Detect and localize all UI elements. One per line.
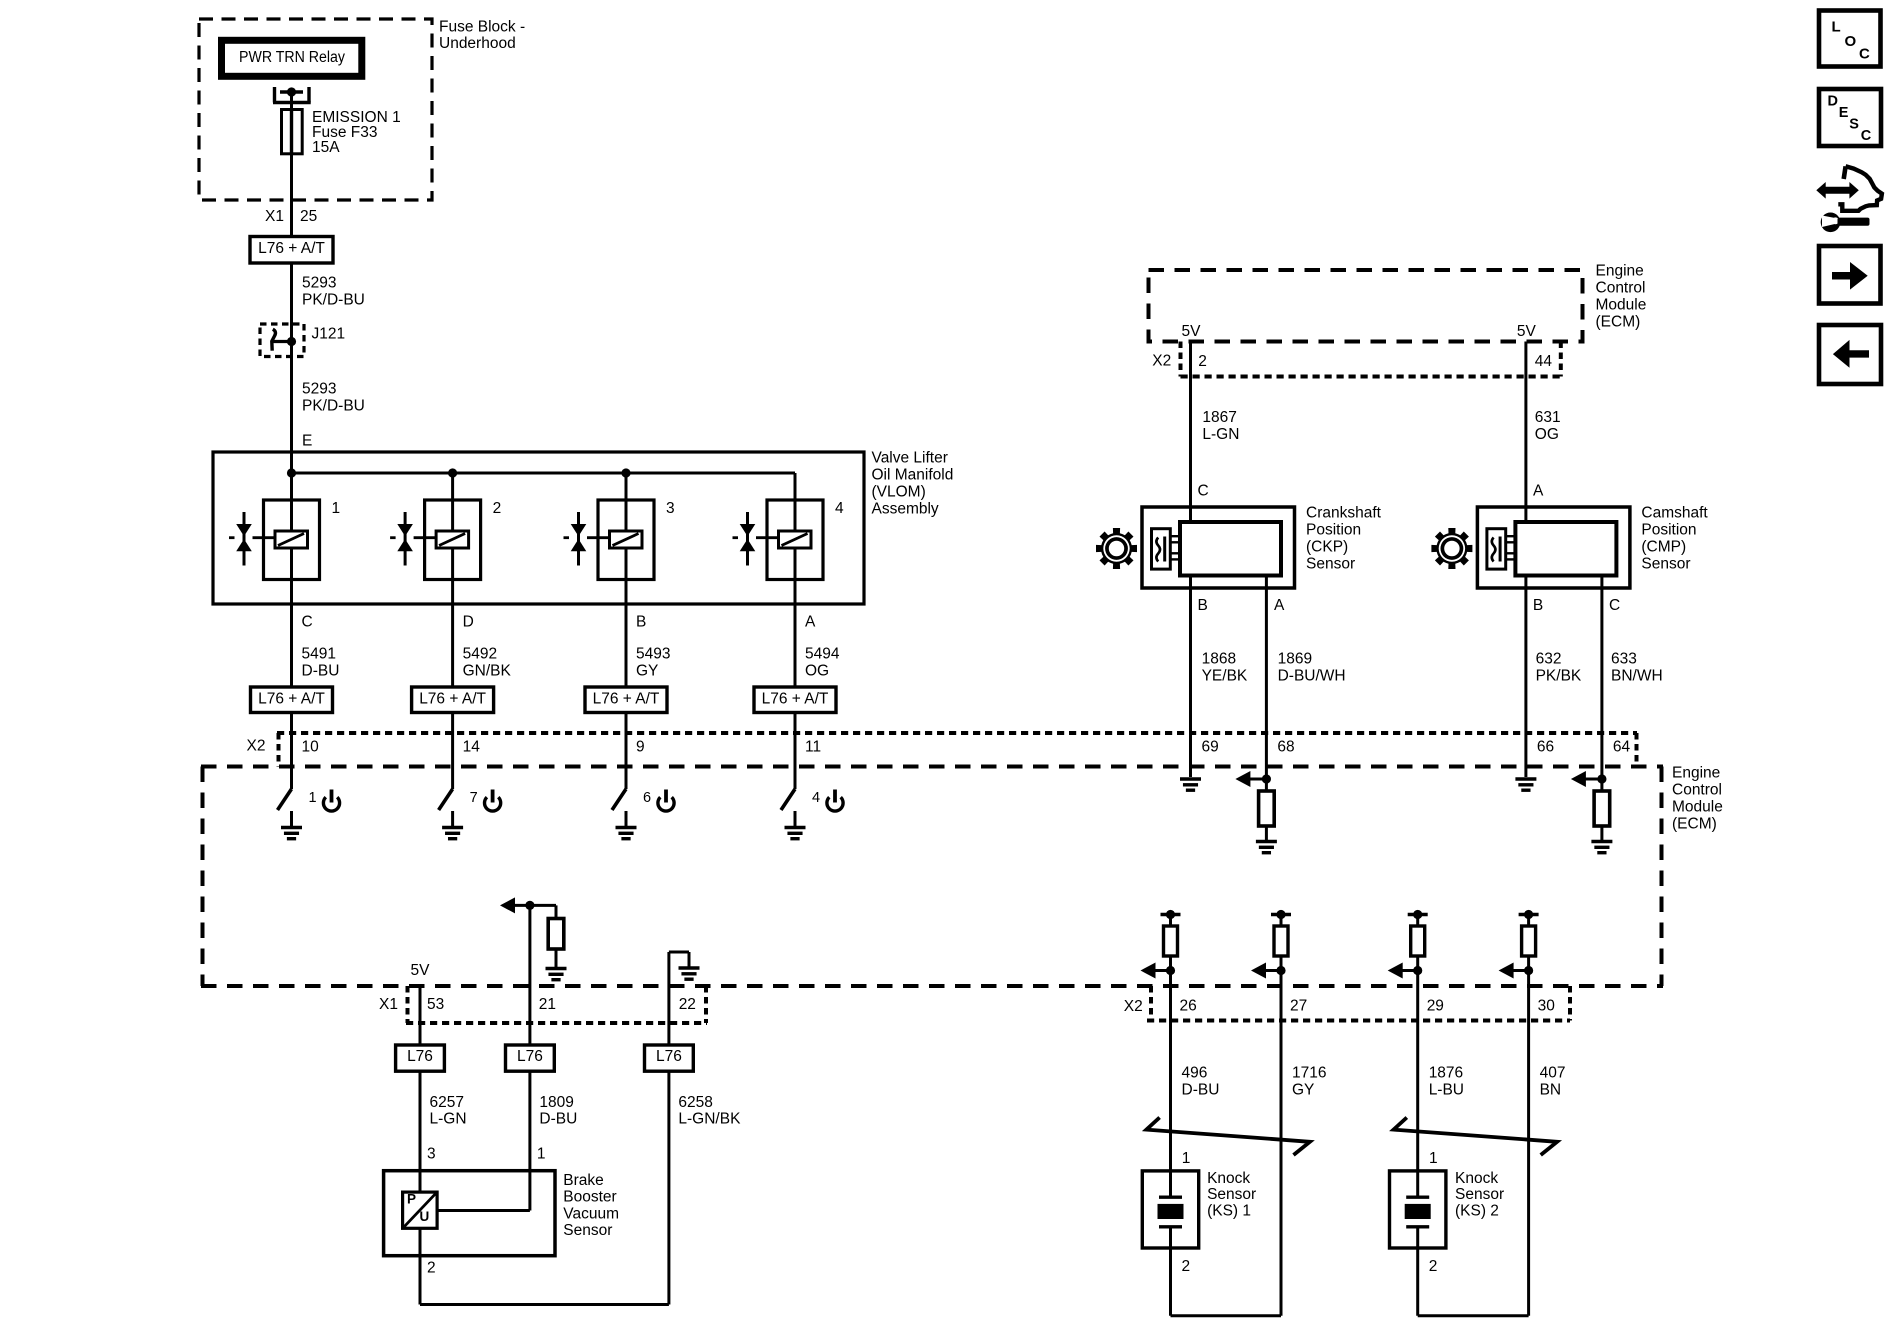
svg-text:(KS) 2: (KS) 2 — [1455, 1202, 1499, 1219]
signal arrow pin 29 — [1388, 963, 1403, 979]
svg-text:66: 66 — [1537, 739, 1554, 756]
wire KS1 return — [1169, 1248, 1172, 1316]
solenoid 4 (VLOM) — [794, 473, 797, 500]
power/ignition icon 4 — [827, 797, 843, 811]
junction dot pin 29 — [1413, 966, 1422, 975]
termination resistor pin 64 — [1600, 779, 1603, 791]
svg-text:Vacuum: Vacuum — [563, 1205, 619, 1222]
ground branch pin 22 — [669, 951, 689, 954]
wire fuse to X1-25 — [290, 154, 293, 237]
svg-text:Sensor: Sensor — [1455, 1186, 1504, 1203]
svg-text:5492: 5492 — [463, 646, 497, 663]
connector X2 strip left end dash — [277, 733, 281, 767]
svg-text:6257: 6257 — [430, 1094, 464, 1111]
svg-text:Position: Position — [1641, 522, 1696, 539]
icon button LOC — [1819, 11, 1881, 67]
svg-text:Module: Module — [1672, 799, 1723, 816]
svg-text:C: C — [302, 614, 313, 631]
wire 5293 lower segment — [290, 342, 293, 453]
wire pin 27 to connector — [1280, 971, 1283, 1021]
junction dot J121 — [287, 337, 296, 346]
svg-text:L76 + A/T: L76 + A/T — [258, 240, 325, 257]
junction dot bus sol1 — [287, 468, 296, 477]
svg-text:L76 + A/T: L76 + A/T — [258, 691, 325, 708]
svg-text:3: 3 — [666, 500, 675, 517]
connector X1 strip bottom dotted line — [406, 1021, 707, 1025]
wire VLOM pin D to connector — [451, 580, 454, 688]
svg-text:3: 3 — [427, 1146, 436, 1163]
svg-text:Fuse Block -: Fuse Block - — [439, 19, 525, 36]
svg-text:(KS) 1: (KS) 1 — [1207, 1202, 1251, 1219]
wire 1716 GY — [1280, 1021, 1283, 1316]
svg-text:Knock: Knock — [1455, 1170, 1498, 1187]
wire relay to fuse — [290, 92, 293, 110]
svg-text:X2: X2 — [1152, 353, 1171, 370]
svg-text:X2: X2 — [1124, 998, 1143, 1015]
connector X2 strip (knock) right dash — [1568, 986, 1572, 1021]
ground below resistor pin 64 — [1591, 840, 1612, 843]
svg-text:J121: J121 — [312, 326, 346, 343]
svg-text:44: 44 — [1535, 353, 1553, 370]
pressure transducer P/U symbol — [403, 1192, 438, 1228]
svg-text:C: C — [1198, 483, 1209, 500]
svg-text:64: 64 — [1613, 739, 1631, 756]
svg-text:1: 1 — [1429, 1150, 1438, 1167]
svg-text:C: C — [1861, 128, 1872, 144]
wire 6258 L-GN/BK — [667, 1071, 670, 1304]
svg-text:22: 22 — [679, 996, 696, 1013]
solenoid 1 (VLOM) — [290, 473, 293, 500]
junction dot bus sol3 — [621, 468, 630, 477]
connector X1 strip right end dash — [704, 986, 708, 1023]
svg-text:Camshaft: Camshaft — [1641, 505, 1708, 522]
svg-text:Engine: Engine — [1672, 765, 1720, 782]
svg-text:B: B — [1533, 597, 1543, 614]
svg-text:(ECM): (ECM) — [1672, 816, 1717, 833]
splice J121 hook symbol — [272, 329, 276, 350]
svg-text:10: 10 — [302, 739, 320, 756]
svg-text:L-GN/BK: L-GN/BK — [678, 1111, 741, 1128]
ground at pin 69 — [1180, 777, 1201, 780]
wire VLOM pin C to connector — [290, 580, 293, 688]
svg-text:Booster: Booster — [563, 1189, 616, 1206]
svg-text:BN: BN — [1540, 1082, 1562, 1099]
svg-text:L: L — [1832, 19, 1841, 36]
icon button DESC — [1819, 89, 1881, 146]
svg-text:5293: 5293 — [302, 381, 336, 398]
svg-text:(CKP): (CKP) — [1306, 539, 1348, 556]
svg-text:OG: OG — [805, 663, 829, 680]
option box L76 (1809) — [506, 1045, 555, 1071]
svg-text:25: 25 — [300, 208, 317, 225]
svg-text:(CMP): (CMP) — [1641, 539, 1686, 556]
svg-text:30: 30 — [1538, 998, 1556, 1015]
svg-text:Sensor: Sensor — [1641, 556, 1690, 573]
svg-text:Module: Module — [1596, 297, 1647, 314]
VLOM assembly box — [213, 452, 864, 604]
svg-text:5493: 5493 — [636, 646, 670, 663]
svg-text:2: 2 — [493, 500, 502, 517]
svg-text:5V: 5V — [411, 962, 431, 979]
svg-text:1: 1 — [332, 500, 341, 517]
svg-text:D-BU: D-BU — [539, 1111, 577, 1128]
fuse block - underhood (dashed box) — [199, 19, 432, 200]
wire 496 D-BU — [1169, 1021, 1172, 1171]
ground at pin 66 — [1515, 777, 1536, 780]
svg-text:Engine: Engine — [1596, 263, 1644, 280]
svg-text:O: O — [1845, 33, 1857, 50]
driver switch 7 (ECM) — [439, 789, 453, 810]
icon button back (left arrow) — [1819, 325, 1881, 384]
svg-text:X1: X1 — [265, 208, 284, 225]
svg-text:5V: 5V — [1182, 323, 1202, 340]
svg-text:21: 21 — [539, 996, 556, 1013]
svg-text:U: U — [420, 1209, 430, 1224]
icon button next (right arrow) — [1819, 246, 1881, 304]
svg-text:27: 27 — [1290, 998, 1307, 1015]
wire 5491 into X2 connector — [290, 713, 293, 790]
svg-text:9: 9 — [636, 739, 645, 756]
svg-text:14: 14 — [463, 739, 481, 756]
wire 1868 YE/BK (pin B) — [1189, 576, 1192, 778]
svg-text:633: 633 — [1611, 651, 1637, 668]
svg-text:Crankshaft: Crankshaft — [1306, 505, 1382, 522]
junction dot bus sol2 — [448, 468, 457, 477]
knock sensor KS2 — [1390, 1171, 1446, 1248]
driver switch 6 (ECM) — [612, 789, 626, 810]
svg-text:L76: L76 — [517, 1048, 543, 1065]
ECM box top edge — [201, 765, 1663, 769]
bias network pin 30 (ECM) — [1519, 913, 1539, 916]
option box L76 (6258) — [645, 1045, 694, 1071]
svg-text:53: 53 — [427, 996, 444, 1013]
ECM box right edge — [1660, 767, 1664, 987]
svg-text:Knock: Knock — [1207, 1170, 1250, 1187]
connector X2 strip (top right) bottom dotted — [1181, 375, 1561, 379]
svg-text:Valve Lifter: Valve Lifter — [872, 450, 948, 467]
signal arrow pin 26 — [1141, 963, 1156, 979]
option box L76 + A/T (feed) — [250, 237, 333, 264]
connector X2 strip (top right) left dash — [1179, 342, 1183, 377]
option box L76 (6257) — [396, 1045, 445, 1071]
svg-text:BN/WH: BN/WH — [1611, 668, 1663, 685]
svg-text:26: 26 — [1180, 998, 1197, 1015]
ground after switch 4 — [794, 811, 797, 827]
wire 5493 into X2 connector — [625, 713, 628, 790]
svg-text:Control: Control — [1672, 782, 1722, 799]
svg-text:GY: GY — [636, 663, 658, 680]
svg-text:1869: 1869 — [1278, 651, 1312, 668]
wire VLOM pin B to connector — [625, 580, 628, 688]
bias network pin 27 (ECM) — [1271, 913, 1291, 916]
connector X2 strip (knock) left dash — [1149, 986, 1153, 1021]
junction dot pin 27 — [1276, 966, 1285, 975]
svg-text:L76 + A/T: L76 + A/T — [593, 691, 660, 708]
svg-text:1809: 1809 — [539, 1094, 573, 1111]
svg-text:5V: 5V — [1517, 323, 1537, 340]
svg-text:A: A — [805, 614, 816, 631]
svg-text:68: 68 — [1277, 739, 1294, 756]
svg-text:L-GN: L-GN — [1202, 426, 1239, 443]
twisted pair symbol KS2 — [1394, 1118, 1558, 1156]
brake booster vacuum sensor box — [384, 1171, 555, 1256]
relay PWR TRN Relay box — [222, 40, 362, 76]
svg-text:1868: 1868 — [1202, 651, 1236, 668]
junction dot pin 26 — [1166, 966, 1175, 975]
svg-text:496: 496 — [1182, 1065, 1208, 1082]
svg-text:4: 4 — [835, 500, 844, 517]
signal arrow (to ECM) pin 21 — [500, 897, 515, 913]
camshaft position CMP sensor body — [1477, 507, 1630, 588]
CMP sensor gear icon — [1431, 528, 1472, 569]
svg-text:D: D — [1828, 93, 1838, 109]
svg-text:L76: L76 — [656, 1048, 682, 1065]
icon wrench — [1821, 213, 1841, 233]
svg-text:69: 69 — [1202, 739, 1219, 756]
svg-text:2: 2 — [1182, 1258, 1191, 1275]
svg-text:E: E — [1839, 105, 1849, 121]
svg-text:4: 4 — [812, 790, 820, 806]
wire pin2 to splice with 6258 — [420, 1303, 669, 1306]
wire KS2 return — [1416, 1248, 1419, 1316]
wire 1876 L-BU — [1416, 1021, 1419, 1171]
signal arrow pin 68 — [1235, 771, 1250, 787]
connector X2 strip (top right) right dash — [1559, 342, 1563, 377]
svg-text:E: E — [302, 433, 312, 450]
svg-text:PK/D-BU: PK/D-BU — [302, 292, 365, 309]
svg-text:PK/BK: PK/BK — [1536, 668, 1582, 685]
wire 633 BN/WH (pin C) — [1600, 576, 1603, 780]
solenoid 3 (VLOM) — [625, 473, 628, 500]
wire pin 21 inside ECM — [528, 905, 531, 1045]
option box L76 + A/T (5493) — [585, 687, 667, 713]
svg-text:631: 631 — [1535, 409, 1561, 426]
svg-text:L76 + A/T: L76 + A/T — [419, 691, 486, 708]
wire 1869 D-BU/WH (pin A) — [1265, 576, 1268, 780]
wire 1809 D-BU — [528, 1071, 531, 1210]
svg-text:PWR TRN Relay: PWR TRN Relay — [239, 49, 345, 66]
svg-text:A: A — [1533, 483, 1544, 500]
wire 6257 L-GN — [419, 1071, 422, 1192]
bias network pin 29 (ECM) — [1408, 913, 1428, 916]
svg-text:Sensor: Sensor — [1306, 556, 1355, 573]
svg-text:1716: 1716 — [1292, 1065, 1326, 1082]
junction dot pin 30 — [1524, 966, 1533, 975]
svg-text:X2: X2 — [247, 738, 266, 755]
wire pin 30 to connector — [1527, 971, 1530, 1021]
wire 632 PK/BK (pin B) — [1524, 576, 1527, 778]
knock sensor KS1 — [1142, 1171, 1198, 1248]
ground after switch 7 — [451, 811, 454, 827]
wire 5492 into X2 connector — [451, 713, 454, 790]
wire 1867 L-GN — [1189, 342, 1192, 523]
solenoid 2 (VLOM) — [451, 473, 454, 500]
power/ignition icon 1 — [323, 797, 339, 811]
wire 5293 upper segment — [290, 263, 293, 342]
svg-text:5293: 5293 — [302, 275, 336, 292]
svg-text:C: C — [1609, 597, 1620, 614]
relay output bracket — [273, 87, 276, 103]
svg-text:Sensor: Sensor — [1207, 1186, 1256, 1203]
svg-text:6: 6 — [643, 790, 651, 806]
svg-text:(VLOM): (VLOM) — [872, 484, 926, 501]
svg-text:D-BU: D-BU — [302, 663, 340, 680]
CKP sensor gear icon — [1096, 528, 1137, 569]
svg-text:Control: Control — [1596, 280, 1646, 297]
svg-text:GN/BK: GN/BK — [463, 663, 512, 680]
svg-text:YE/BK: YE/BK — [1202, 668, 1248, 685]
wire 6257 pin 53 — [419, 986, 422, 1045]
svg-text:S: S — [1849, 116, 1859, 132]
svg-text:D-BU: D-BU — [1182, 1082, 1220, 1099]
fuse F33 EMISSION 1 — [282, 110, 303, 154]
VLOM supply bus — [292, 472, 796, 475]
wire 407 BN — [1527, 1021, 1530, 1316]
svg-text:632: 632 — [1536, 651, 1562, 668]
svg-text:Brake: Brake — [563, 1172, 604, 1189]
svg-text:PK/D-BU: PK/D-BU — [302, 398, 365, 415]
svg-text:15A: 15A — [312, 139, 340, 156]
svg-text:2: 2 — [427, 1260, 436, 1277]
ground below pull resistor — [555, 949, 558, 968]
svg-text:L-BU: L-BU — [1429, 1082, 1464, 1099]
svg-text:(ECM): (ECM) — [1596, 314, 1641, 331]
splice J121 dashed box — [260, 324, 304, 357]
wire pin 29 to connector — [1416, 971, 1419, 1021]
option box L76 + A/T (5491) — [251, 687, 333, 713]
power/ignition icon 6 — [658, 797, 674, 811]
wire pin 22 inside ECM — [667, 952, 670, 1045]
branch to pull resistor — [530, 904, 556, 907]
svg-text:Sensor: Sensor — [563, 1222, 612, 1239]
signal arrow pin 27 — [1251, 963, 1266, 979]
wire pin 26 to connector — [1169, 971, 1172, 1021]
svg-text:2: 2 — [1429, 1258, 1438, 1275]
svg-text:5494: 5494 — [805, 646, 840, 663]
svg-text:Position: Position — [1306, 522, 1361, 539]
ground below resistor pin 68 — [1256, 840, 1277, 843]
svg-text:11: 11 — [805, 739, 821, 756]
wire pin1 to P/U — [437, 1209, 530, 1212]
connector X1 strip left end dash — [406, 986, 410, 1023]
svg-text:D: D — [463, 614, 474, 631]
ECM box bottom edge — [201, 984, 1663, 988]
svg-text:407: 407 — [1540, 1065, 1566, 1082]
option box L76 + A/T (5492) — [412, 687, 494, 713]
signal arrow pin 64 — [1571, 771, 1586, 787]
driver switch 1 (ECM) — [278, 789, 292, 810]
bias network pin 26 (ECM) — [1161, 913, 1181, 916]
svg-text:1: 1 — [309, 790, 317, 806]
svg-text:5491: 5491 — [302, 646, 336, 663]
svg-text:Assembly: Assembly — [872, 501, 939, 518]
svg-text:P: P — [407, 1192, 416, 1207]
svg-text:GY: GY — [1292, 1082, 1314, 1099]
svg-text:OG: OG — [1535, 426, 1559, 443]
ECM box left edge — [201, 767, 205, 987]
option box L76 + A/T (5494) — [754, 687, 836, 713]
svg-text:L76: L76 — [407, 1048, 433, 1065]
svg-text:1: 1 — [1182, 1150, 1191, 1167]
junction dot pin 64 — [1597, 774, 1606, 783]
svg-text:L-GN: L-GN — [430, 1111, 467, 1128]
icon vehicle outline — [1844, 166, 1846, 179]
wire 631 OG — [1524, 342, 1527, 523]
icon vehicle double-arrow — [1816, 182, 1859, 199]
svg-text:7: 7 — [470, 790, 478, 806]
crankshaft position CKP sensor body — [1142, 507, 1295, 588]
svg-text:Underhood: Underhood — [439, 35, 516, 52]
connector X2 strip top dotted line — [277, 731, 1637, 735]
svg-text:C: C — [1859, 46, 1870, 63]
pull resistor (pin 21 node) — [548, 919, 564, 950]
svg-text:2: 2 — [1198, 353, 1207, 370]
svg-text:D-BU/WH: D-BU/WH — [1278, 668, 1346, 685]
svg-text:B: B — [1198, 597, 1208, 614]
svg-text:Oil Manifold: Oil Manifold — [872, 467, 954, 484]
svg-text:1867: 1867 — [1202, 409, 1236, 426]
wire E into VLOM — [290, 452, 293, 473]
signal arrow pin 30 — [1499, 963, 1514, 979]
svg-text:B: B — [636, 614, 646, 631]
svg-text:6258: 6258 — [678, 1094, 712, 1111]
wire pin2 from P/U — [419, 1228, 422, 1304]
svg-text:A: A — [1274, 597, 1285, 614]
svg-text:L76 + A/T: L76 + A/T — [762, 691, 829, 708]
svg-text:1876: 1876 — [1429, 1065, 1463, 1082]
ground after switch 6 — [625, 811, 628, 827]
junction dot pin 68 — [1262, 774, 1271, 783]
svg-text:1: 1 — [537, 1146, 546, 1163]
junction dot at relay output — [287, 87, 296, 96]
termination resistor pin 68 — [1265, 779, 1268, 791]
ECM 5V reference box (dashed) — [1149, 270, 1583, 342]
connector X2 strip (knock) bottom dotted — [1147, 1019, 1570, 1023]
twisted pair symbol KS1 — [1146, 1118, 1310, 1156]
wire VLOM pin A to connector — [794, 580, 797, 688]
junction dot pin 21 node — [525, 901, 534, 910]
power/ignition icon 7 — [485, 797, 501, 811]
ground after switch 1 — [290, 811, 293, 827]
svg-text:29: 29 — [1427, 998, 1444, 1015]
svg-text:X1: X1 — [379, 996, 398, 1013]
wire 5494 into X2 connector — [794, 713, 797, 790]
connector X2 strip right end dash — [1635, 733, 1639, 767]
driver switch 4 (ECM) — [781, 789, 795, 810]
